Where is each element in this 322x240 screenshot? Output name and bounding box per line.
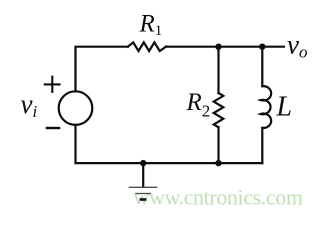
- node dot B (L junction top): [259, 44, 265, 50]
- ground bar 1: [129, 186, 158, 188]
- wire R1 to output vo: [166, 46, 284, 48]
- wire L branch top: [261, 47, 263, 86]
- wire bottom: [76, 162, 263, 164]
- svg-text:www.cntronics.com: www.cntronics.com: [134, 185, 304, 210]
- plus sign of source: [44, 76, 61, 93]
- svg-text:vi: vi: [21, 89, 38, 121]
- node dot A (R1/R2 junction): [215, 44, 221, 50]
- wire top-left from source to R1: [76, 47, 128, 92]
- node dot C (R2 bottom junction): [215, 160, 221, 166]
- wire R2 branch top: [217, 47, 219, 93]
- voltage source vi: [59, 91, 93, 125]
- ground bar 3: [140, 198, 147, 201]
- inductor L: [261, 86, 271, 128]
- svg-text:R1: R1: [139, 11, 163, 40]
- ground bar 2: [135, 193, 151, 195]
- minus sign of source: [46, 127, 61, 129]
- svg-text:L: L: [276, 92, 293, 123]
- wire left vertical source to bottom: [74, 125, 76, 163]
- svg-text:R2: R2: [186, 89, 211, 121]
- wire R2 branch bottom: [217, 127, 219, 163]
- resistor R1: [128, 42, 166, 51]
- node dot D (ground junction): [140, 160, 146, 166]
- ground stub: [142, 163, 144, 187]
- wire L branch bottom: [261, 128, 263, 163]
- svg-text:vo: vo: [287, 30, 307, 62]
- resistor R2: [214, 93, 224, 127]
